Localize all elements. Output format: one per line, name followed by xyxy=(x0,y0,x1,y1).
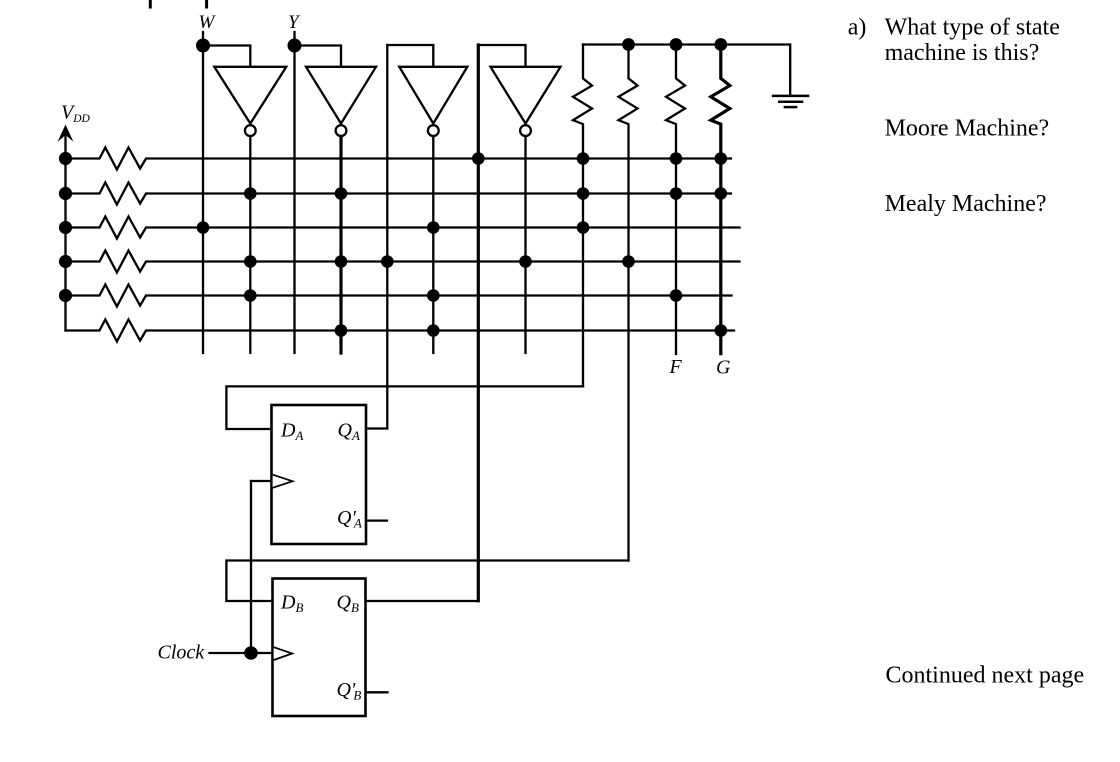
svg-text:What type of state: What type of state xyxy=(885,15,1060,41)
svg-text:F: F xyxy=(669,356,683,378)
svg-text:Continued next page: Continued next page xyxy=(886,662,1085,688)
svg-text:machine is this?: machine is this? xyxy=(885,40,1040,66)
svg-text:W: W xyxy=(199,12,217,33)
svg-text:G: G xyxy=(716,357,731,379)
svg-text:Mealy Machine?: Mealy Machine? xyxy=(885,191,1047,217)
svg-text:Clock: Clock xyxy=(158,642,206,664)
svg-text:a): a) xyxy=(848,15,867,41)
svg-text:Moore Machine?: Moore Machine? xyxy=(885,116,1050,142)
